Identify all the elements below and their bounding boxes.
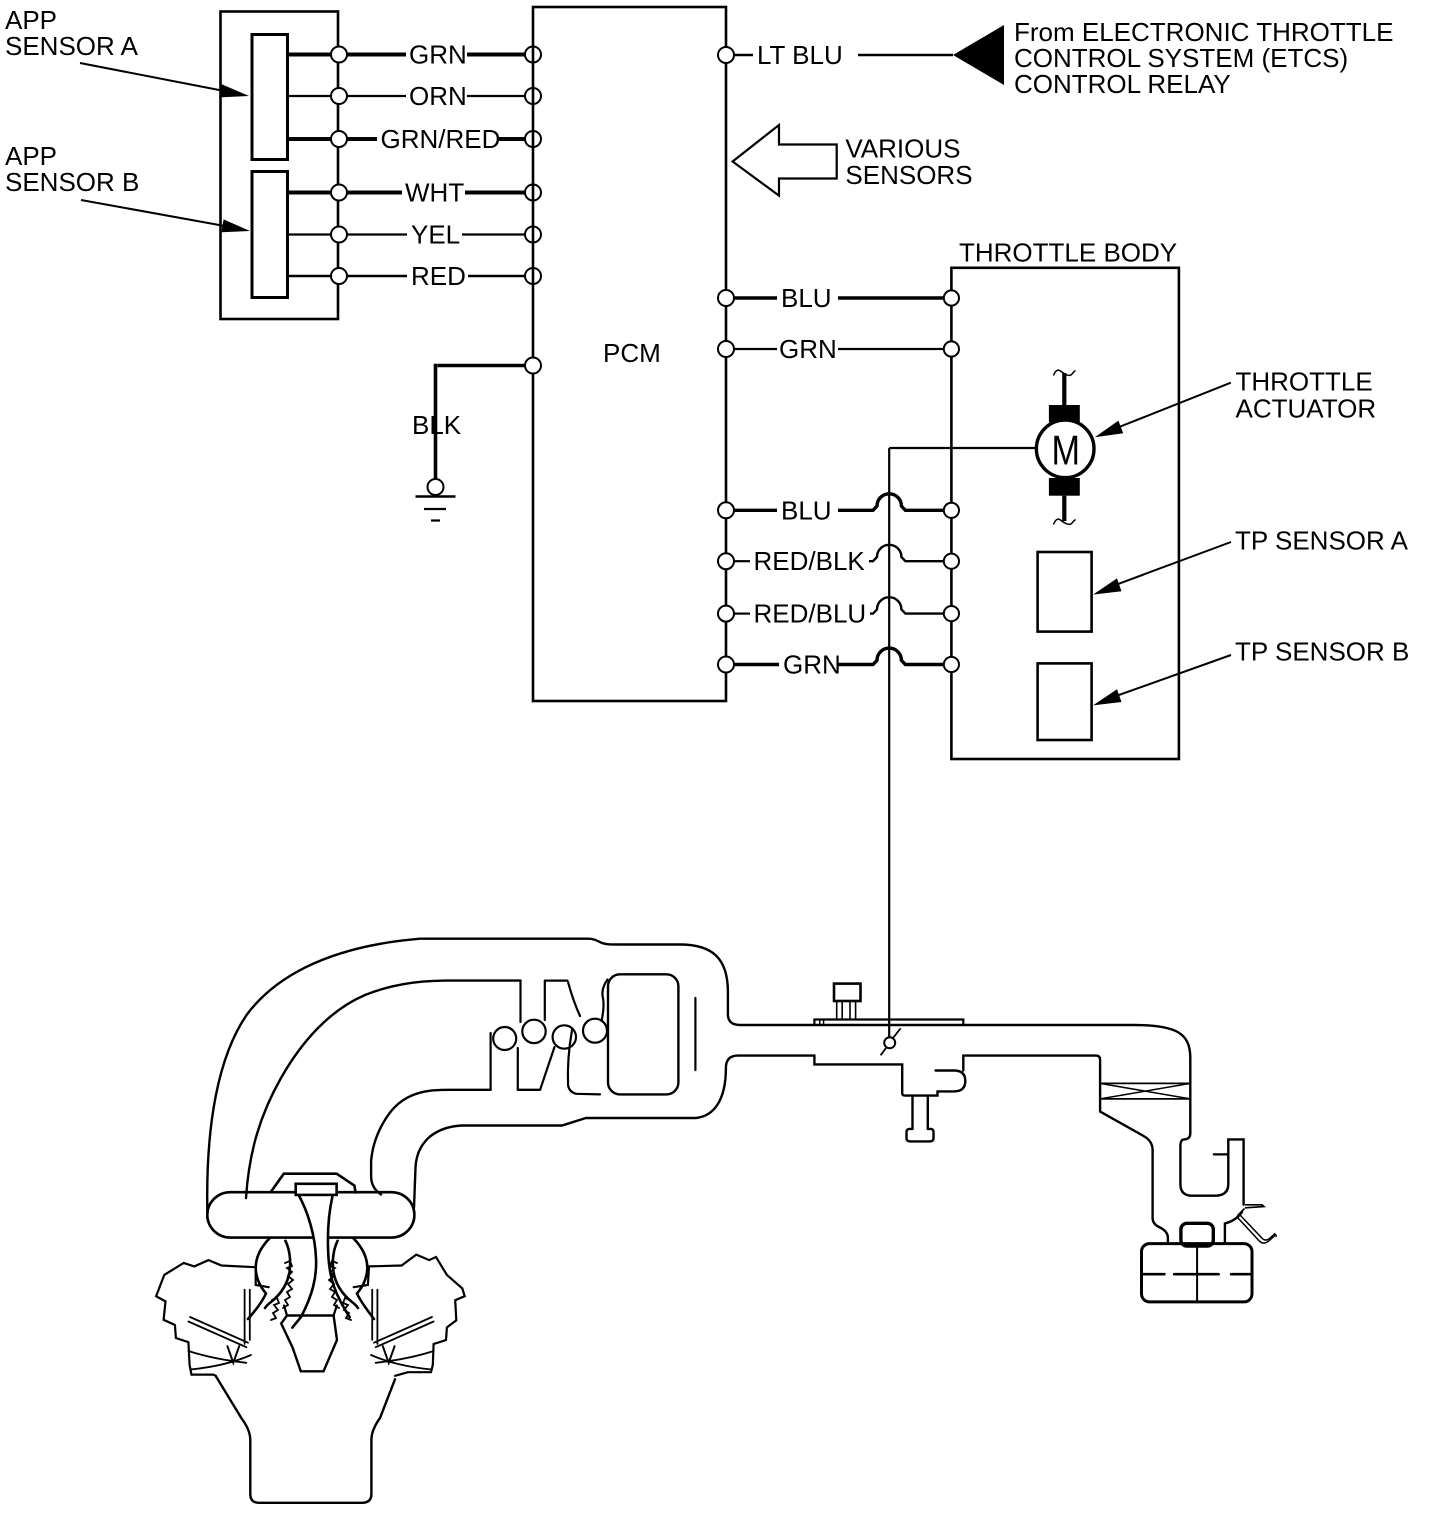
pin circle RED/BLU at throttle body: [944, 606, 959, 621]
svg-text:M: M: [1052, 427, 1081, 474]
svg-text:ORN: ORN: [409, 81, 467, 111]
svg-text:GRN: GRN: [409, 40, 467, 70]
duct throat divider line: [694, 998, 696, 1070]
left valve stem: [245, 1290, 250, 1344]
chamber port stub left: [284, 1306, 287, 1316]
intake duct bottom wall (right): [963, 1056, 1168, 1244]
resonator channel d: [568, 980, 608, 1022]
left valve head V: [227, 1346, 239, 1363]
ground: [416, 479, 456, 521]
pin circle GRN at throttle body: [944, 341, 959, 356]
resonator channel c: [540, 1030, 600, 1095]
pin circle GRN2 at PCM: [718, 657, 734, 673]
pin circle RED/BLK at PCM: [718, 553, 734, 569]
MAP sensor box on flange: [834, 984, 861, 1001]
bracket right edge: [962, 1056, 964, 1071]
leader arrow to TP sensor A: [1093, 542, 1231, 595]
air box dashed filter line: [1143, 1273, 1251, 1276]
leader arrow to sensor B: [81, 200, 250, 232]
throttle flange bottom plate: [814, 1056, 937, 1096]
pin circle ORN left: [331, 88, 347, 104]
wire BLK: [412, 364, 525, 479]
svg-text:TP SENSOR A: TP SENSOR A: [1235, 526, 1409, 556]
svg-text:GRN: GRN: [779, 334, 837, 364]
left spring squiggle: [283, 1261, 293, 1308]
svg-text:RED/BLK: RED/BLK: [754, 546, 866, 576]
leader arrow to motor: [1095, 383, 1231, 438]
clip tab: [1238, 1205, 1264, 1216]
resonator circle 4: [583, 1019, 607, 1043]
svg-text:THROTTLE: THROTTLE: [1236, 367, 1373, 397]
svg-text:BLU: BLU: [781, 495, 832, 525]
pin circle LT BLU at PCM: [718, 47, 734, 63]
svg-text:YEL: YEL: [411, 220, 460, 250]
VARIOUS SENSORS label: [845, 134, 972, 191]
leader arrow to TP sensor B: [1093, 655, 1231, 705]
wire BLU (lower) with hop: [734, 494, 944, 526]
MAP sensor legs: [837, 1001, 856, 1020]
wire RED: [288, 261, 526, 291]
wire GRN (lower) with hop: [734, 648, 944, 679]
pin circle RED/BLU at PCM: [718, 606, 734, 622]
pin circle WHT at PCM: [525, 185, 541, 201]
svg-text:BLU: BLU: [781, 283, 832, 313]
svg-text:THROTTLE BODY: THROTTLE BODY: [959, 238, 1177, 268]
pin circle BLU2 at PCM: [718, 502, 734, 518]
label APP SENSOR A: [5, 5, 139, 61]
intake duct bottom wall (left): [414, 1056, 814, 1208]
pin circle BLU at PCM: [718, 290, 734, 306]
right head top-left edge: [354, 1266, 369, 1287]
wire GRN (upper): [734, 334, 944, 364]
wire RED/BLK with hop: [734, 545, 944, 576]
left runner outer wall: [248, 1238, 270, 1319]
chamber port stub right: [334, 1306, 337, 1316]
svg-text:ACTUATOR: ACTUATOR: [1236, 394, 1377, 424]
left port lower curves: [188, 1351, 251, 1369]
wire YEL: [288, 220, 526, 250]
svg-text:SENSOR B: SENSOR B: [5, 167, 139, 197]
wire from junction to motor: [889, 447, 1036, 449]
runner trunk left wall: [292, 1195, 316, 1328]
intake duct outer wall: [207, 939, 1243, 1218]
wire GRN/RED: [288, 124, 526, 154]
svg-text:PCM: PCM: [603, 338, 661, 368]
resonator floor segment: [518, 1089, 540, 1091]
VARIOUS SENSORS block arrow: [733, 125, 837, 196]
left runner inner wall: [265, 1241, 290, 1308]
air box inlet throat right wall: [1225, 1212, 1242, 1244]
right lower squiggle: [343, 1298, 351, 1320]
hold-down clip: [1237, 1217, 1276, 1243]
combustion chamber: [281, 1316, 337, 1372]
pin circle YEL left: [331, 227, 347, 243]
pin circle BLK at PCM: [525, 358, 541, 374]
runner trunk fill: [292, 1195, 349, 1328]
pin circle WHT left: [331, 185, 347, 201]
pin circle GRN/RED at PCM: [525, 131, 541, 147]
resonator channel b: [521, 981, 568, 1022]
right runner outer wall: [353, 1238, 374, 1319]
runner trunk right wall: [328, 1197, 350, 1318]
left lower squiggle: [271, 1298, 279, 1320]
pin circle GRN/RED left: [331, 131, 347, 147]
ETCS source arrow (solid triangle): [953, 25, 1004, 85]
pin circle GRN at PCM: [718, 341, 734, 357]
APP sensor A element: [252, 35, 288, 160]
intake duct floor arc: [371, 1090, 491, 1195]
throttle actuator motor M: [1036, 370, 1094, 524]
wire RED/BLU with hop: [734, 597, 944, 628]
svg-text:RED/BLU: RED/BLU: [754, 599, 867, 629]
svg-text:GRN: GRN: [783, 650, 841, 680]
right port lower curves: [371, 1351, 434, 1369]
resonator channel a: [491, 1033, 518, 1090]
svg-text:LT BLU: LT BLU: [757, 40, 843, 70]
right runner inner wall: [333, 1241, 358, 1308]
plenum port rect: [296, 1184, 337, 1195]
wire ORN: [288, 81, 526, 111]
left cylinder head outline: [156, 1260, 256, 1376]
PCM box: [533, 7, 726, 701]
engine block: [216, 1376, 395, 1503]
throttle flange top: [814, 1020, 963, 1026]
air box divider: [1196, 1244, 1198, 1302]
pin circle BLU at throttle body: [944, 290, 959, 305]
TP sensor B rect: [1038, 663, 1092, 740]
APP sensor connector box: [221, 12, 339, 320]
right valve stem: [372, 1290, 377, 1344]
left valve strip: [188, 1317, 248, 1347]
pin circle ORN at PCM: [525, 88, 541, 104]
bracket nub: [936, 1071, 966, 1092]
ETCS source label: [1014, 17, 1393, 99]
svg-text:RED: RED: [411, 261, 466, 291]
pin circle RED/BLK at throttle body: [944, 554, 959, 569]
left head top-right edge: [256, 1267, 269, 1287]
resonator chamber: [608, 974, 678, 1094]
svg-text:VARIOUS: VARIOUS: [845, 134, 960, 164]
flex coupling X section: [1100, 1083, 1190, 1099]
APP sensor B element: [252, 172, 288, 298]
air cleaner box: [1142, 1244, 1253, 1302]
resonator circle 1: [493, 1027, 516, 1050]
pin circle RED at PCM: [525, 268, 541, 284]
pin circle GRN at PCM: [525, 47, 541, 63]
wire GRN: [288, 40, 526, 70]
right valve head V: [383, 1346, 395, 1363]
air box inlet stub: [1181, 1223, 1213, 1246]
label THROTTLE ACTUATOR: [1236, 367, 1377, 424]
pin circle RED left: [331, 268, 347, 284]
pin circle GRN left: [331, 47, 347, 63]
svg-text:SENSORS: SENSORS: [845, 160, 972, 190]
svg-text:GRN/RED: GRN/RED: [381, 124, 501, 154]
svg-text:CONTROL RELAY: CONTROL RELAY: [1014, 69, 1231, 99]
right cylinder head outline: [369, 1255, 465, 1376]
wire LT BLU: [734, 40, 953, 70]
right spring squiggle: [329, 1261, 339, 1308]
pin circle YEL at PCM: [525, 227, 541, 243]
flange tick marks: [820, 1020, 824, 1026]
long vertical wire to throttle body drawing: [888, 448, 890, 1038]
THROTTLE BODY box: [951, 268, 1179, 759]
plenum stadium: [207, 1192, 414, 1237]
snorkel lip tick: [1214, 1153, 1229, 1155]
svg-text:TP SENSOR B: TP SENSOR B: [1235, 637, 1409, 667]
plenum trapezoid: [271, 1174, 356, 1193]
junction circle on intake drawing: [881, 1028, 901, 1055]
wire BLU (upper): [734, 283, 944, 313]
resonator circle 3: [553, 1025, 576, 1048]
leader arrow to sensor A: [80, 63, 249, 97]
bracket foot: [907, 1129, 934, 1142]
bracket stem: [913, 1096, 928, 1129]
right valve strip: [374, 1317, 434, 1347]
svg-text:SENSOR A: SENSOR A: [5, 31, 139, 61]
pin circle BLU2 at throttle body: [944, 503, 959, 518]
intake duct inner top wall: [246, 981, 521, 1198]
label APP SENSOR B: [5, 141, 139, 197]
wire WHT: [288, 178, 526, 208]
svg-text:WHT: WHT: [405, 178, 464, 208]
TP sensor A rect: [1038, 552, 1092, 632]
svg-text:BLK: BLK: [412, 410, 462, 440]
pin circle GRN2 at throttle body: [944, 657, 959, 672]
resonator circle 2: [522, 1020, 545, 1043]
